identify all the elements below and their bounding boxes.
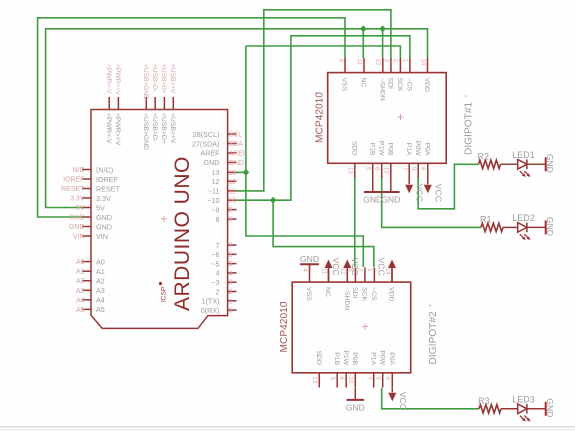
svg-text:2: 2 [229, 289, 233, 296]
digipot U2 MCP42010 DIGIPOT#2 body and pins [292, 268, 411, 388]
svg-text:<USB>GND: <USB>GND [142, 64, 149, 100]
svg-text:1: 1 [229, 298, 233, 305]
wire net: DIGIPOT#2 P0W to resistor R3 [382, 388, 479, 409]
svg-text:11: 11 [356, 59, 362, 66]
svg-text:6: 6 [229, 252, 233, 259]
svg-text:<PWR>+V: <PWR>+V [114, 64, 121, 96]
Arduino origin cross [161, 216, 167, 222]
svg-text:LED3: LED3 [512, 394, 535, 404]
svg-text:14: 14 [419, 59, 425, 66]
svg-text:12: 12 [229, 179, 237, 186]
svg-text:': ' [279, 302, 290, 304]
svg-text:4: 4 [216, 269, 220, 278]
wire R3 to LED3 [501, 408, 518, 410]
svg-text:7: 7 [229, 243, 233, 250]
svg-text:GND: GND [381, 195, 400, 205]
svg-text:DIGIPOT#2: DIGIPOT#2 [428, 311, 439, 365]
junction on 5V net at NC branch [360, 25, 367, 32]
svg-text:<USB>GND: <USB>GND [142, 113, 149, 150]
svg-text:11: 11 [229, 188, 236, 195]
svg-text:A1: A1 [76, 269, 85, 276]
svg-text:10: 10 [229, 198, 237, 205]
svg-text:~10: ~10 [207, 196, 219, 205]
supply VCC at DIGIPOT#2 NC [325, 258, 342, 283]
svg-text:<PWR>-V: <PWR>-V [105, 64, 112, 94]
svg-text:VSS: VSS [341, 78, 348, 92]
svg-text:LED2: LED2 [512, 213, 535, 223]
svg-text:~SHDN: ~SHDN [343, 287, 350, 310]
svg-text:12: 12 [212, 177, 220, 186]
svg-text:P1B: P1B [368, 143, 375, 156]
svg-text:VCC: VCC [415, 184, 425, 202]
svg-text:11: 11 [320, 268, 326, 275]
svg-text:3.3V: 3.3V [96, 194, 111, 203]
supply VCC at DIGIPOT#1 P0A [424, 178, 444, 202]
svg-text:P1W: P1W [342, 350, 349, 365]
svg-text:9: 9 [229, 207, 233, 214]
resistor R3 [478, 396, 501, 413]
svg-text:R1: R1 [480, 214, 492, 224]
svg-text:P0A: P0A [423, 143, 430, 156]
svg-text:VCC: VCC [331, 258, 341, 276]
Arduino UNO right pins 7..0(RX) [201, 241, 237, 315]
svg-text:VCC: VCC [350, 258, 360, 276]
svg-text:<PWR>+V: <PWR>+V [114, 113, 121, 146]
svg-text:10: 10 [383, 167, 389, 174]
svg-text:13: 13 [347, 167, 353, 174]
svg-text:SDO: SDO [315, 350, 322, 365]
svg-text:IOREF: IOREF [96, 175, 119, 184]
svg-text:GND: GND [545, 154, 555, 173]
wire 5V net: Arduino 5V to DIGIPOT#1 NC, ~SHDN, VDD [46, 29, 428, 208]
junction on SCK net at Arduino pin 13 [243, 169, 250, 176]
ground GND at LED2 [545, 217, 555, 236]
ground GND at LED3 [545, 398, 555, 417]
Arduino UNO analog pins A0-A5 [76, 257, 105, 314]
svg-text:A3: A3 [96, 286, 105, 295]
digipot U2 value MCP42010 [279, 301, 290, 352]
svg-text:13: 13 [311, 377, 317, 384]
svg-text:DIGIPOT#1: DIGIPOT#1 [464, 101, 475, 155]
junction on 5V net at ~SHDN branch [379, 25, 386, 32]
wire LED2 to GND [527, 226, 546, 228]
svg-text:': ' [428, 305, 439, 307]
Arduino UNO right pins SCL..8 [192, 130, 247, 224]
svg-text:GND: GND [363, 195, 382, 205]
svg-text:~SHDN: ~SHDN [378, 78, 385, 101]
svg-text:NC: NC [360, 78, 367, 88]
Arduino UNO left pins: N/C IOREF RESET 3.3V 5V GND GND VIN [61, 165, 120, 241]
svg-text:ICSP: ICSP [161, 287, 168, 302]
svg-text:~9: ~9 [211, 205, 219, 214]
svg-text:P1A: P1A [405, 143, 412, 156]
digipot U1 MCP42010 DIGIPOT#1 body and pins [328, 58, 447, 178]
svg-text:0(RX): 0(RX) [201, 306, 220, 315]
svg-text:GND: GND [545, 398, 555, 417]
svg-text:': ' [315, 92, 326, 94]
svg-text:<PWR>-V: <PWR>-V [105, 113, 112, 144]
svg-text:~CS: ~CS [370, 287, 377, 301]
svg-text:<USB>+V: <USB>+V [169, 64, 176, 94]
svg-text:A0: A0 [76, 259, 85, 266]
wire net: DIGIPOT#1 P0W to resistor R2 [418, 164, 478, 209]
svg-text:AREF: AREF [200, 149, 220, 158]
svg-text:3: 3 [229, 280, 233, 287]
svg-text:SDO: SDO [350, 141, 357, 156]
ground GND at DIGIPOT#2 VSS (above) [300, 254, 319, 268]
svg-text:VIN: VIN [73, 234, 85, 241]
svg-text:R2: R2 [478, 151, 490, 161]
svg-text:GND: GND [96, 213, 112, 222]
resistor R1 [480, 214, 503, 231]
ground GND at LED1 [545, 154, 555, 173]
svg-text:A0: A0 [96, 257, 105, 266]
svg-text:P0A: P0A [388, 352, 395, 365]
Arduino UNO value text [171, 156, 194, 311]
svg-text:8: 8 [229, 217, 233, 224]
svg-text:A2: A2 [96, 277, 105, 286]
supply VCC at DIGIPOT#2 P0A [388, 388, 408, 410]
svg-text:~11: ~11 [208, 187, 220, 196]
resistor R2 [478, 151, 501, 168]
svg-text:GND: GND [229, 160, 245, 167]
svg-text:AREF: AREF [229, 150, 248, 157]
svg-text:5: 5 [229, 261, 233, 268]
svg-text:P1W: P1W [377, 141, 384, 156]
svg-text:10: 10 [347, 377, 353, 384]
svg-text:VDD: VDD [388, 287, 395, 301]
svg-text:P0B: P0B [386, 143, 393, 156]
svg-text:7: 7 [216, 241, 220, 250]
svg-text:NC: NC [324, 287, 331, 297]
svg-text:P0W: P0W [414, 141, 421, 156]
svg-text:P0B: P0B [351, 352, 358, 365]
svg-text:ARDUINO UNO: ARDUINO UNO [171, 156, 194, 311]
ground GND at DIGIPOT#2 P0B [346, 388, 365, 413]
IC ARDUINO UNO body outline [91, 110, 228, 329]
digipot U1 value MCP42010 [315, 92, 326, 143]
svg-text:MCP42010: MCP42010 [315, 92, 326, 143]
svg-text:SDI: SDI [351, 287, 358, 298]
svg-text:3.3V: 3.3V [70, 196, 85, 203]
svg-text:MCP42010: MCP42010 [279, 301, 290, 352]
frame bottom edge [0, 427, 575, 431]
wire SCK net: Arduino pin 13 to DIGIPOT#1 SCK and DIGIPOT#2 SCK [237, 46, 401, 267]
wire R2 to LED1 [501, 163, 518, 165]
svg-text:~5: ~5 [211, 259, 219, 268]
svg-text:2: 2 [216, 287, 220, 296]
svg-text:~CS: ~CS [406, 78, 413, 92]
ground GND at DIGIPOT#1 P0B [381, 178, 400, 205]
digipot U2 name DIGIPOT#2 [428, 305, 439, 365]
LED LED2 [512, 213, 535, 240]
svg-text:12: 12 [375, 59, 381, 66]
svg-text:VCC: VCC [377, 258, 387, 276]
svg-text:N/C: N/C [72, 167, 84, 174]
svg-text:0: 0 [229, 308, 233, 315]
wire 5V branch to DIGIPOT#1 NC pin 11 [362, 29, 364, 58]
svg-text:<USB>D-: <USB>D- [151, 64, 158, 92]
svg-text:GND: GND [96, 222, 112, 231]
supply VCC at DIGIPOT#2 VDD [377, 258, 397, 283]
svg-text:8: 8 [216, 215, 220, 224]
svg-text:SCK: SCK [396, 78, 403, 92]
svg-text:VIN: VIN [96, 232, 108, 241]
svg-text:P1B: P1B [333, 352, 340, 365]
svg-text:RESET: RESET [61, 186, 85, 193]
supply VCC at DIGIPOT#1 P1A [405, 178, 425, 202]
svg-text:GND: GND [346, 402, 365, 412]
svg-text:IOREF: IOREF [63, 177, 84, 184]
svg-text:A1: A1 [96, 267, 105, 276]
svg-text:VCC: VCC [433, 184, 443, 202]
wire R1 to LED2 [503, 226, 518, 228]
svg-text:P0W: P0W [378, 350, 385, 365]
svg-text:13: 13 [212, 168, 220, 177]
svg-text:4: 4 [229, 270, 233, 277]
svg-text:R3: R3 [478, 396, 490, 406]
wire 5V branch to DIGIPOT#1 ~SHDN pin 12 [382, 29, 384, 58]
wire net: DIGIPOT#1 P1W to resistor R1 [382, 178, 481, 227]
svg-text:<USB>D+: <USB>D+ [160, 113, 167, 144]
wire daisy-chain net: DIGIPOT#1 SDO to DIGIPOT#2 SDI [354, 178, 356, 267]
svg-text:RESET: RESET [96, 184, 121, 193]
wire SS branch to DIGIPOT#2 ~CS [273, 200, 374, 267]
svg-text:5V: 5V [76, 205, 85, 212]
svg-text:GND: GND [300, 254, 319, 264]
svg-text:A4: A4 [96, 296, 105, 305]
wire GND net: Arduino GND to DIGIPOT#1 VSS [38, 18, 345, 217]
svg-text:SDA: SDA [229, 141, 244, 148]
LED LED3 [512, 394, 535, 421]
svg-text:<USB>D-: <USB>D- [151, 113, 158, 142]
wire LED3 to GND [527, 408, 546, 410]
wire SS net: Arduino pin 10 to DIGIPOT#1 ~CS [237, 36, 410, 200]
LED LED1 [512, 150, 535, 177]
svg-text:': ' [464, 95, 475, 97]
ground GND at DIGIPOT#1 P1B [363, 178, 382, 205]
svg-text:A2: A2 [76, 278, 85, 285]
svg-text:~3: ~3 [211, 278, 219, 287]
supply VCC at DIGIPOT#2 ~SHDN [343, 258, 360, 283]
Arduino ICSP marker [159, 282, 168, 302]
svg-text:A5: A5 [76, 307, 85, 314]
svg-text:GND: GND [69, 215, 85, 222]
svg-text:GND: GND [204, 158, 220, 167]
svg-text:SCL: SCL [229, 132, 243, 139]
wire MOSI net: Arduino pin 11 to DIGIPOT#1 SDI [237, 10, 391, 191]
svg-text:A5: A5 [96, 305, 105, 314]
svg-text:<USB>+V: <USB>+V [169, 113, 176, 144]
wire LED1 to GND [527, 163, 546, 165]
svg-text:~6: ~6 [211, 250, 219, 259]
svg-text:28(SCL): 28(SCL) [193, 130, 220, 139]
Arduino UNO top pins PWR/USB [105, 64, 176, 150]
digipot U1 name DIGIPOT#1 [464, 95, 475, 155]
svg-text:1(TX): 1(TX) [202, 297, 220, 306]
svg-text:VDD: VDD [423, 78, 430, 92]
svg-text:GND: GND [69, 224, 85, 231]
svg-text:(N/C): (N/C) [96, 165, 113, 174]
svg-text:27(SDA): 27(SDA) [192, 139, 220, 148]
svg-text:VSS: VSS [305, 287, 312, 301]
svg-text:A3: A3 [76, 288, 85, 295]
svg-text:SDI: SDI [387, 78, 394, 89]
svg-text:13: 13 [229, 170, 237, 177]
svg-text:GND: GND [545, 217, 555, 236]
junction on SS net at DIGIPOT#2 branch [270, 197, 277, 204]
svg-text:SCK: SCK [361, 287, 368, 301]
svg-text:VCC: VCC [398, 392, 408, 410]
svg-text:A4: A4 [76, 297, 85, 304]
svg-text:<USB>D+: <USB>D+ [160, 64, 167, 94]
svg-text:P1A: P1A [369, 352, 376, 365]
svg-text:5V: 5V [96, 203, 105, 212]
svg-text:LED1: LED1 [512, 150, 535, 160]
